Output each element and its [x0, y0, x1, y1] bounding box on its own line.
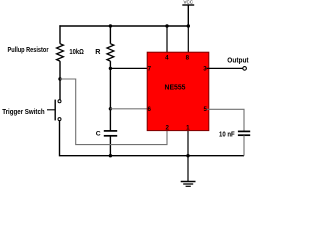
resistor R1 pullup 10kΩ [57, 25, 64, 100]
pin number 8 [186, 54, 190, 61]
junction dot rail-pin4 [165, 24, 168, 27]
svg-text:7: 7 [148, 66, 152, 73]
label Output [227, 58, 249, 65]
label Pullup Resistor [8, 45, 49, 54]
svg-text:1: 1 [186, 125, 190, 132]
junction dot threshold node [109, 107, 112, 110]
svg-text:Trigger Switch: Trigger Switch [2, 107, 45, 116]
junction dot R-pin7 [109, 67, 112, 70]
wire pin4 to rail [166, 26, 168, 54]
junction dot rail-VCC-pin8 [187, 24, 190, 27]
label R [95, 47, 101, 56]
VCC power symbol [182, 0, 194, 26]
svg-text:C: C [96, 131, 101, 138]
pin number 2 [165, 125, 169, 132]
wire R bottom to pin7 [110, 67, 150, 69]
svg-text:R: R [95, 47, 101, 56]
ground symbol [181, 182, 196, 187]
junction dot trigger tap [58, 77, 61, 80]
capacitor 10nF [238, 131, 250, 155]
output terminal circle [243, 67, 247, 71]
pin number 5 [203, 106, 207, 113]
svg-text:6: 6 [147, 106, 151, 113]
wire pin5 to 10nF [207, 109, 245, 131]
wire pin8 to rail [187, 26, 189, 54]
label C [96, 131, 101, 138]
svg-text:NE555: NE555 [165, 85, 186, 92]
resistor R [107, 25, 114, 68]
capacitor C [104, 131, 117, 156]
wire switch bottom [60, 121, 111, 156]
svg-text:4: 4 [165, 54, 169, 61]
value label 10 nF [219, 131, 235, 138]
wire pin3 output [207, 67, 244, 69]
pin number 7 [148, 66, 152, 73]
IC U1 NE555 [147, 52, 209, 130]
pin number 1 [186, 125, 190, 132]
svg-text:Output: Output [227, 58, 249, 65]
wire pin1 to ground symbol [187, 130, 189, 181]
ground rail bottom [110, 155, 244, 157]
svg-text:Pullup Resistor: Pullup Resistor [8, 45, 49, 54]
pin number 3 [203, 66, 207, 73]
wire pin6 threshold [110, 108, 150, 110]
svg-text:10 nF: 10 nF [219, 131, 235, 138]
pin number 6 [147, 106, 151, 113]
junction dot pin1-ground [186, 154, 189, 157]
pin number 4 [165, 54, 169, 61]
junction dot C-ground [109, 154, 112, 157]
wire R to C vertical [109, 68, 111, 130]
label Trigger Switch [2, 107, 45, 116]
svg-text:VCC: VCC [184, 0, 194, 4]
wire VCC rail top [59, 25, 189, 27]
junction dot rail-R [109, 24, 112, 27]
value label 10kΩ [69, 47, 84, 56]
wire trigger net to pin2 [60, 79, 167, 145]
svg-text:2: 2 [165, 125, 169, 132]
svg-text:3: 3 [203, 66, 207, 73]
trigger switch pushbutton [47, 100, 61, 121]
svg-text:8: 8 [186, 54, 190, 61]
svg-text:10kΩ: 10kΩ [69, 47, 84, 56]
